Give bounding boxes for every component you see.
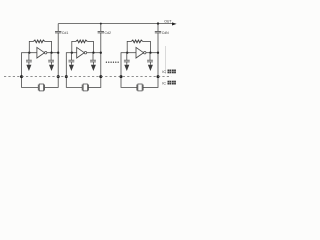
wire: stage 1 crystal right horizontal <box>45 86 59 88</box>
crystal X3 left plate <box>136 85 138 91</box>
node: stage 1 right vertical joins output wire <box>57 52 59 54</box>
wire: stage 3 feedback right vertical <box>149 41 151 52</box>
pin: stage 3 right IC pin <box>157 75 160 78</box>
capacitor Cd1 (coupling) upper lead <box>57 24 59 32</box>
node: stage 2 input junction <box>71 52 73 54</box>
crystal X3 right plate <box>142 85 144 91</box>
wire: stage 3 right outer vertical <box>157 33 159 88</box>
scan crease (faint vertical) <box>165 46 167 74</box>
node: Cd2 joins output bus <box>100 23 102 25</box>
svg-text:CdN: CdN <box>162 31 169 35</box>
resistor Rf1 (feedback) <box>34 40 45 43</box>
crystal X1 left plate <box>37 85 39 91</box>
inverter U2 <box>77 47 85 58</box>
wire: stage 1 crystal left horizontal <box>21 86 38 88</box>
crystal X1 right plate <box>44 85 46 91</box>
IC boundary dashed line <box>4 76 171 78</box>
capacitor C3a plates <box>124 59 130 61</box>
svg-text:IC: IC <box>162 70 166 74</box>
svg-text:OUT: OUT <box>164 20 171 24</box>
capacitor Cd2 plates <box>98 30 104 32</box>
node: stage 2 output junction <box>92 52 94 54</box>
capacitor C1b (output) lead <box>50 53 52 61</box>
wire: stage 3 left outer vertical down to crystal <box>120 52 122 87</box>
wire: stage 2 output horizontal <box>87 52 101 54</box>
node: stage 2 right vertical joins output wire <box>100 52 102 54</box>
node: stage 3 output junction <box>149 52 151 54</box>
wire: stage 3 crystal right horizontal <box>143 86 158 88</box>
capacitor C1b plates <box>48 59 54 61</box>
capacitor C3b plates <box>147 59 153 61</box>
svg-text:Cd2: Cd2 <box>105 31 111 35</box>
node: stage 1 output junction <box>50 52 52 54</box>
inverter U1 output bubble <box>45 52 47 54</box>
wire: stage 1 feedback right vertical <box>51 41 53 52</box>
node: stage 1 input junction <box>28 52 30 54</box>
ground under C1a <box>28 62 30 65</box>
wire: stage 3 input horizontal <box>121 52 136 54</box>
capacitor Cd2 (coupling) upper lead <box>100 24 102 32</box>
node: stage 3 input junction <box>126 52 128 54</box>
wire: stage 2 right outer vertical <box>100 33 102 88</box>
wire: stage 3 feedback top right segment <box>143 40 151 42</box>
ground under C2b <box>92 62 94 65</box>
capacitor C2b (output) lead <box>92 53 94 61</box>
wire: stage 2 left outer vertical down to crystal <box>65 52 67 87</box>
pin: stage 3 left IC pin <box>120 75 123 78</box>
svg-text:Cd1: Cd1 <box>62 31 68 35</box>
wire: stage 1 feedback top left segment <box>29 40 34 42</box>
node: stage 3 right vertical joins output wire <box>157 52 159 54</box>
label IC内部 (inside IC) <box>162 70 176 75</box>
wire: stage 1 right outer vertical <box>57 33 59 88</box>
wire: stage 3 feedback top left segment <box>127 40 132 42</box>
crystal X3 body <box>138 84 142 91</box>
wire: stage 2 feedback left vertical <box>71 41 73 52</box>
pin: stage 2 left IC pin <box>65 75 68 78</box>
inverter U3 output bubble <box>144 52 146 54</box>
ground under C2a <box>70 62 72 65</box>
crystal X2 left plate <box>81 85 83 91</box>
capacitor C2a (input) lead <box>70 53 72 61</box>
resistor Rf3 (feedback) <box>131 40 142 43</box>
node: CdN joins output bus at OUT takeoff <box>157 22 159 24</box>
wire: stage 1 left outer vertical down to crystal <box>21 52 23 87</box>
crystal X2 right plate <box>87 85 89 91</box>
inverter U2 output bubble <box>84 52 86 54</box>
wire: stage 3 feedback left vertical <box>126 41 128 52</box>
crystal X2 body <box>83 84 87 91</box>
label IC外部 (outside IC) <box>162 81 176 86</box>
wire: stage 2 feedback top right segment <box>87 40 94 42</box>
wire: stage 1 input horizontal <box>22 52 37 54</box>
pin: stage 1 right IC pin <box>57 75 60 78</box>
ground under C1b <box>51 62 53 65</box>
capacitor C3b (output) lead <box>149 53 151 61</box>
ground under C3b <box>149 62 151 65</box>
wire: stage 2 feedback top left segment <box>71 40 76 42</box>
wire: stage 3 crystal left horizontal <box>121 86 137 88</box>
wire: stage 1 feedback left vertical <box>28 41 30 52</box>
svg-text:IC: IC <box>162 81 166 85</box>
wire: stage 1 feedback top right segment <box>45 40 52 42</box>
capacitor C2b plates <box>90 59 96 61</box>
capacitor CdN (coupling) upper lead <box>157 24 159 32</box>
capacitor Cd1 plates <box>55 30 61 32</box>
wire: stage 2 crystal left horizontal <box>66 86 82 88</box>
output bus rail <box>58 23 172 25</box>
ellipsis dots (repeated stages) <box>106 62 107 63</box>
wire: stage 2 crystal right horizontal <box>88 86 101 88</box>
pin: stage 2 right IC pin <box>99 75 102 78</box>
pin: stage 1 left IC pin <box>20 75 23 78</box>
terminal: OUT arrow <box>172 22 177 25</box>
inverter U3 <box>136 47 144 58</box>
capacitor CdN plates <box>155 30 161 32</box>
capacitor C2a plates <box>69 59 75 61</box>
wire: stage 3 output horizontal <box>146 52 158 54</box>
wire: stage 2 input horizontal <box>66 52 76 54</box>
capacitor C3a (input) lead <box>126 53 128 61</box>
wire: stage 2 feedback right vertical <box>92 41 94 52</box>
capacitor C1a (input) lead <box>28 53 30 61</box>
inverter U1 <box>37 47 45 58</box>
wire: stage 1 output horizontal <box>47 52 58 54</box>
capacitor C1a plates <box>26 59 32 61</box>
crystal X1 body <box>39 84 43 91</box>
ground under C3a <box>126 62 128 65</box>
resistor Rf2 (feedback) <box>76 40 87 43</box>
